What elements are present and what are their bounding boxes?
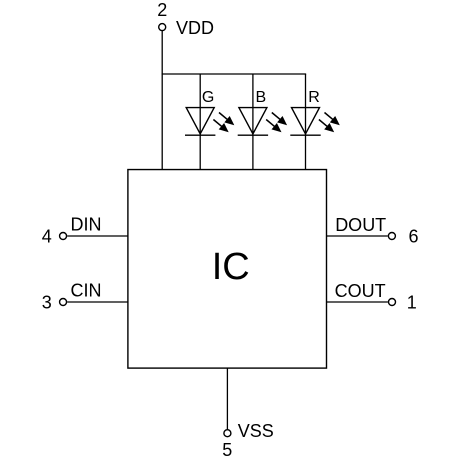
wire VDD vertical bbox=[161, 31, 163, 170]
svg-text:DOUT: DOUT bbox=[335, 215, 386, 235]
wire LED G bbox=[199, 74, 201, 170]
LED R emission arrow 1 bbox=[325, 113, 340, 126]
LED B bbox=[238, 74, 287, 170]
LED G emission arrow 2 bbox=[213, 120, 228, 133]
wire LED R bbox=[305, 74, 307, 170]
svg-text:3: 3 bbox=[42, 292, 52, 312]
LED R triangle bbox=[292, 108, 320, 134]
pin 5 terminal (VSS) bbox=[224, 430, 231, 437]
svg-text:CIN: CIN bbox=[71, 281, 102, 301]
LED G triangle bbox=[186, 108, 214, 134]
svg-text:COUT: COUT bbox=[335, 281, 386, 301]
LED G emission arrow 1 bbox=[219, 113, 234, 126]
svg-text:B: B bbox=[256, 89, 267, 106]
LED B triangle bbox=[239, 108, 267, 134]
svg-text:VSS: VSS bbox=[238, 421, 274, 441]
pin 6 terminal (DOUT) bbox=[388, 233, 395, 240]
LED R cathode bar bbox=[290, 134, 320, 136]
wire COUT bbox=[326, 301, 388, 303]
LED R emission arrow 2 bbox=[319, 120, 334, 133]
IC U1 body bbox=[128, 170, 327, 369]
svg-text:VDD: VDD bbox=[176, 18, 214, 38]
wire LED B bbox=[252, 74, 254, 170]
pin 3 terminal (CIN) bbox=[60, 299, 67, 306]
svg-text:IC: IC bbox=[212, 246, 250, 288]
svg-text:5: 5 bbox=[222, 440, 232, 460]
svg-text:4: 4 bbox=[42, 226, 52, 246]
wire DIN bbox=[67, 235, 128, 237]
wire DOUT bbox=[326, 235, 388, 237]
LED G bbox=[185, 74, 234, 170]
svg-text:G: G bbox=[202, 89, 214, 106]
svg-text:R: R bbox=[308, 89, 320, 106]
LED B emission arrow 2 bbox=[266, 120, 281, 133]
LED B emission arrow 1 bbox=[272, 113, 287, 126]
LED B cathode bar bbox=[238, 134, 268, 136]
LED R bbox=[290, 74, 340, 170]
pin 1 terminal (COUT) bbox=[389, 299, 396, 306]
LED G cathode bar bbox=[185, 134, 215, 136]
pin 4 terminal (DIN) bbox=[60, 233, 67, 240]
svg-text:6: 6 bbox=[408, 226, 418, 246]
wire VSS bbox=[226, 368, 228, 429]
svg-text:DIN: DIN bbox=[71, 215, 102, 235]
wire CIN bbox=[67, 301, 128, 303]
svg-text:2: 2 bbox=[157, 0, 167, 20]
pin 2 terminal (VDD) bbox=[159, 24, 166, 31]
wire VDD bus bbox=[162, 73, 307, 75]
svg-text:1: 1 bbox=[407, 292, 417, 312]
